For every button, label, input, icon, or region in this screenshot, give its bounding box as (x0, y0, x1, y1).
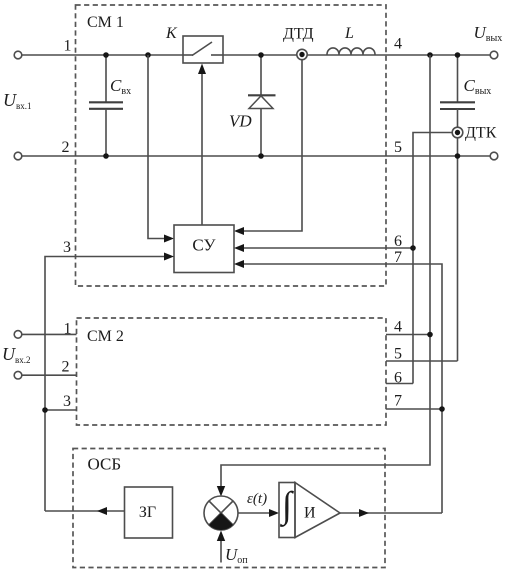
arrowhead into SU input 1 (164, 235, 174, 243)
wire line 7 from bus442 to SU (244, 264, 442, 513)
junction dot line5/Cvyh branch (455, 153, 461, 159)
summing node circle (204, 496, 238, 530)
capacitor Cvx (89, 55, 123, 156)
svg-text:ДТД: ДТД (283, 26, 314, 43)
svg-text:И: И (304, 505, 316, 522)
arrowhead into SU right input 1 (234, 227, 244, 235)
svg-text:5: 5 (394, 346, 402, 363)
wire line 6 from bus413 to SU (244, 247, 413, 249)
junction dot line4 bus430 (427, 52, 433, 58)
junction dot line1 branch to SU (145, 52, 151, 58)
diode VD (248, 55, 276, 156)
inductor L (327, 48, 375, 55)
wire line 3 into SU (45, 257, 164, 512)
wire SM2 pin3 from bus45 (45, 409, 77, 411)
amplifier I triangle (295, 483, 340, 538)
svg-text:∫: ∫ (279, 485, 294, 527)
summing node filled bottom sector (209, 513, 233, 530)
junction dot line2/VD (258, 153, 264, 159)
junction dot bus442/SM2 pin7 (439, 406, 445, 412)
svg-text:5: 5 (394, 139, 402, 156)
svg-text:2: 2 (62, 139, 70, 156)
block OSB dashed box (73, 449, 385, 568)
svg-text:ДТК: ДТК (465, 125, 497, 142)
switch K contact (183, 42, 223, 56)
svg-text:К: К (165, 25, 178, 42)
junction dot line4/Cvyh (455, 52, 461, 58)
arrowhead ZG output left (97, 507, 107, 515)
wire SM2 pin2 (22, 374, 77, 376)
svg-text:VD: VD (229, 112, 252, 131)
wire amplifier output to bus442 (340, 512, 442, 514)
wire DTK down through line 5 to SM2 pin5 (457, 138, 459, 361)
junction dot bus45/SM2 pin3 (42, 407, 48, 413)
terminal output 4 (Uvyh) (490, 51, 498, 59)
terminal output 5 (490, 152, 498, 160)
wire line 1 from terminal to switch K (22, 54, 183, 56)
svg-text:1: 1 (64, 38, 72, 55)
integrator box (279, 483, 295, 538)
arrowhead into SU right input 2 (234, 244, 244, 252)
wire line 1-4 from switch K to output terminal (223, 54, 490, 56)
block SM2 dashed box (77, 318, 387, 425)
wire SM2 pin6 to bus413 (386, 383, 413, 385)
wire control line SU to K (201, 73, 203, 225)
svg-text:СМ 1: СМ 1 (87, 14, 124, 31)
svg-text:ЗГ: ЗГ (139, 504, 156, 521)
arrowhead amplifier output (359, 509, 369, 517)
current sensor DTK circle (452, 127, 463, 138)
wire SM2 pin5 to bus457 (386, 360, 458, 362)
control unit SU box (174, 225, 234, 273)
arrowhead into SU input 2 (164, 253, 174, 261)
arrowhead into integrator (269, 509, 279, 517)
wire DTK sense to bus 413 (413, 133, 452, 384)
svg-text:4: 4 (394, 319, 402, 336)
svg-text:ОСБ: ОСБ (88, 455, 122, 474)
wire SM2 pin4 to bus430 (386, 334, 430, 336)
wire SM2 pin7 to bus442 (386, 408, 442, 410)
wire ZG output to bus45 (45, 510, 125, 512)
arrowhead into K (198, 64, 206, 75)
wire branch line1 down to SU input (148, 55, 164, 239)
oscillator ZG box (125, 487, 173, 538)
junction dot line2/Cvx (103, 153, 109, 159)
capacitor Cvyh (440, 55, 475, 127)
wire SM2 pin1 (22, 333, 77, 335)
wire bus430 output voltage down to OSB (221, 55, 430, 486)
junction dot DTK (455, 130, 460, 135)
junction dot line1/VD (258, 52, 264, 58)
junction dot DTD (299, 52, 304, 57)
summing node X diagonals (209, 501, 233, 525)
switch K box (183, 36, 223, 63)
svg-text:ε(t): ε(t) (247, 491, 267, 507)
svg-text:7: 7 (394, 393, 402, 410)
wire line 2-5 common rail (22, 155, 490, 157)
current sensor DTD circle (297, 49, 307, 59)
block SM1 dashed box (76, 5, 387, 286)
svg-text:3: 3 (63, 393, 71, 410)
arrowhead into SU right input 3 (234, 260, 244, 268)
wire Uop into summing node (220, 541, 222, 563)
junction dot bus430/SM2 pin4 (427, 332, 433, 338)
junction dot bus413/line6 (410, 245, 416, 251)
wire summing node to integrator (238, 512, 269, 514)
svg-text:4: 4 (394, 36, 402, 53)
arrowhead into summing node top (217, 486, 225, 497)
svg-text:3: 3 (63, 239, 71, 256)
terminal input 2 (14, 152, 22, 160)
svg-text:СУ: СУ (192, 236, 216, 255)
svg-text:2: 2 (62, 359, 70, 376)
arrowhead Uop up into summing node (217, 531, 225, 542)
terminal SM2 input 2 (14, 371, 22, 379)
svg-text:СМ 2: СМ 2 (87, 328, 124, 345)
svg-text:L: L (344, 25, 354, 42)
wire DTD sense down to SU (244, 60, 302, 231)
junction dot line1/Cvx (103, 52, 109, 58)
terminal SM2 input 1 (14, 331, 22, 339)
terminal input 1 (Uvx1 +) (14, 51, 22, 59)
